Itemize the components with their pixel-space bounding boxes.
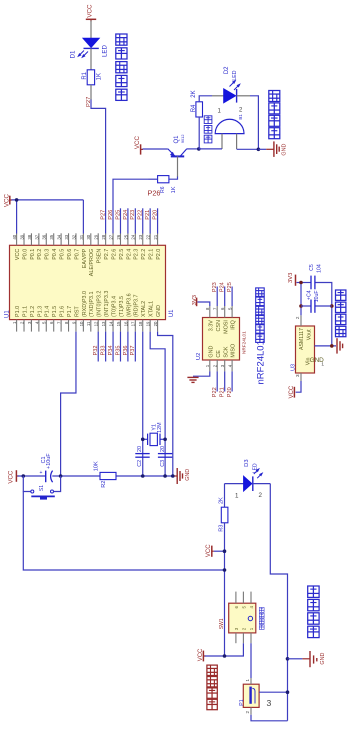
svg-text:VCC: VCC	[4, 193, 11, 207]
svg-text:P1.3: P1.3	[37, 306, 43, 317]
svg-text:P24: P24	[123, 210, 129, 220]
svg-text:3V3: 3V3	[192, 295, 198, 305]
svg-text:2K: 2K	[219, 497, 225, 504]
regulator U3 ASM1117	[295, 315, 324, 381]
svg-text:20: 20	[137, 446, 143, 452]
svg-text:P0.3: P0.3	[45, 249, 51, 260]
svg-text:P20: P20	[152, 210, 158, 220]
resistor R6 1K	[149, 176, 177, 194]
wire buzzer right	[237, 148, 259, 150]
svg-text:P27: P27	[101, 210, 107, 220]
svg-text:10: 10	[79, 321, 84, 326]
svg-text:D3: D3	[244, 459, 250, 466]
svg-text:35: 35	[49, 234, 54, 239]
svg-text:nRF24L01: nRF24L01	[256, 340, 267, 384]
power 3V3 (U2)	[192, 295, 210, 306]
svg-text:27: 27	[108, 234, 113, 239]
wire reset rail	[18, 475, 173, 477]
svg-text:P26: P26	[148, 189, 161, 198]
svg-text:P33: P33	[101, 346, 107, 356]
wires P23 P24 P25	[212, 282, 233, 306]
wire P1 pin3	[259, 692, 287, 708]
svg-text:U3: U3	[291, 364, 297, 371]
annotation power-input text	[207, 665, 217, 710]
svg-text:GND: GND	[320, 652, 326, 664]
svg-text:P21: P21	[220, 387, 226, 397]
svg-text:(T1)P3.5: (T1)P3.5	[119, 296, 125, 317]
svg-text:36: 36	[42, 234, 47, 239]
wire base to R6	[169, 177, 178, 180]
svg-text:17: 17	[131, 321, 136, 326]
svg-text:P21: P21	[145, 210, 151, 220]
svg-text:P0.7: P0.7	[74, 249, 80, 260]
svg-text:25: 25	[123, 234, 128, 239]
svg-text:14: 14	[108, 321, 113, 326]
capacitor C2 20	[135, 446, 149, 467]
net labels P32-P37 wires	[93, 332, 136, 362]
wire U3 GND	[315, 345, 337, 347]
svg-text:104: 104	[317, 264, 323, 273]
svg-text:13: 13	[101, 321, 106, 326]
svg-text:SW1: SW1	[219, 618, 225, 629]
svg-text:P1.4: P1.4	[45, 306, 51, 317]
wire P27 net	[91, 100, 106, 234]
svg-text:XTAL2: XTAL2	[141, 301, 147, 317]
svg-text:LED: LED	[232, 70, 238, 80]
svg-text:28: 28	[101, 234, 106, 239]
junction	[22, 474, 175, 478]
svg-text:P0.5: P0.5	[60, 249, 66, 260]
ground GND (alarm)	[258, 141, 287, 157]
svg-text:D2: D2	[224, 66, 230, 74]
wire SW1 pin1 to P1	[250, 643, 252, 678]
svg-text:P0.0: P0.0	[22, 249, 28, 260]
svg-text:10uF: 10uF	[314, 290, 320, 302]
svg-text:+10uF: +10uF	[46, 453, 52, 469]
annotation power-module text	[335, 290, 345, 337]
svg-text:(INT0)P3.2: (INT0)P3.2	[97, 291, 103, 317]
svg-text:40: 40	[12, 234, 17, 239]
svg-text:9012: 9012	[180, 135, 185, 144]
switch SW1 power	[219, 592, 256, 644]
svg-text:30: 30	[86, 234, 91, 239]
wire P1 pin2 loop	[251, 715, 288, 721]
label NRF24L01	[242, 331, 247, 354]
capacitor C5 104	[309, 264, 323, 289]
svg-text:LED: LED	[101, 44, 108, 57]
svg-text:P2.6: P2.6	[111, 249, 117, 260]
wire VCC rail down	[23, 492, 224, 571]
svg-text:XTAL1: XTAL1	[149, 301, 155, 317]
junction	[286, 657, 290, 661]
designator U3	[291, 364, 297, 371]
svg-text:ASM1117: ASM1117	[299, 328, 305, 350]
svg-text:2: 2	[295, 316, 300, 319]
junction	[257, 148, 261, 152]
svg-text:MISO: MISO	[231, 344, 237, 358]
svg-text:VCC: VCC	[198, 648, 204, 661]
svg-text:11: 11	[86, 321, 91, 326]
svg-text:P23: P23	[130, 210, 136, 220]
capacitor C1 +10uF	[40, 453, 53, 482]
svg-text:P1.6: P1.6	[60, 306, 66, 317]
wire R4 to collector	[198, 117, 200, 149]
op-amp U1 body (8051 MCU)	[10, 233, 166, 331]
svg-text:U2: U2	[196, 353, 202, 360]
module U2 NRF24L01	[203, 306, 240, 371]
svg-text:P23: P23	[212, 282, 218, 292]
svg-text:3: 3	[295, 374, 300, 377]
capacitor C3 20	[158, 446, 172, 467]
svg-text:ALE/PROG: ALE/PROG	[89, 249, 95, 277]
resistor R4 2K	[191, 90, 202, 117]
svg-text:MOSI: MOSI	[223, 320, 229, 334]
buzzer B1	[215, 108, 244, 150]
svg-text:29: 29	[94, 234, 99, 239]
svg-text:P0.4: P0.4	[52, 249, 58, 260]
svg-text:GND: GND	[156, 305, 162, 317]
svg-text:+: +	[40, 470, 43, 476]
svg-text:38: 38	[27, 234, 32, 239]
power VCC (D3 rail)	[206, 544, 224, 557]
svg-text:10K: 10K	[94, 461, 100, 471]
svg-text:20: 20	[153, 321, 158, 326]
svg-text:19: 19	[146, 321, 151, 326]
svg-text:P25: P25	[227, 282, 233, 292]
svg-text:R2: R2	[101, 481, 107, 488]
svg-text:34: 34	[57, 234, 62, 239]
svg-text:PSEN: PSEN	[97, 249, 103, 264]
wire GND pin20	[158, 332, 173, 476]
svg-text:P24: P24	[220, 282, 226, 292]
svg-text:18: 18	[138, 321, 143, 326]
svg-text:C5: C5	[309, 264, 315, 271]
svg-text:SCK: SCK	[223, 346, 229, 357]
svg-text:P1.7: P1.7	[67, 306, 73, 317]
ground GND (U2 pin1)	[187, 371, 209, 382]
svg-text:P2.0: P2.0	[156, 249, 162, 260]
svg-text:P2.1: P2.1	[149, 249, 155, 260]
svg-text:12: 12	[94, 321, 99, 326]
svg-text:32: 32	[71, 234, 76, 239]
svg-text:P2.3: P2.3	[134, 249, 140, 260]
svg-text:24: 24	[131, 234, 136, 239]
wire D3 cathode to GND	[270, 484, 287, 721]
junction	[330, 344, 334, 348]
svg-text:U1: U1	[4, 310, 10, 318]
svg-text:39: 39	[19, 234, 24, 239]
svg-text:R6: R6	[160, 186, 166, 193]
svg-text:1K: 1K	[171, 186, 177, 193]
svg-text:P2.5: P2.5	[119, 249, 125, 260]
svg-text:P22: P22	[138, 210, 144, 220]
svg-text:P34: P34	[108, 346, 114, 356]
svg-text:P37: P37	[130, 346, 136, 356]
svg-text:R4: R4	[191, 104, 197, 112]
switch S1 reset button	[23, 476, 60, 500]
svg-text:P22: P22	[212, 387, 218, 397]
wire buzzer left	[199, 148, 222, 150]
crystal Y1 12M	[143, 422, 165, 446]
svg-text:VCC: VCC	[15, 249, 21, 260]
svg-text:GND: GND	[281, 143, 287, 155]
wires P22 P21 P20	[212, 371, 233, 397]
ground GND (power)	[288, 651, 327, 667]
svg-text:P2.2: P2.2	[141, 249, 147, 260]
svg-text:20: 20	[160, 446, 166, 452]
svg-text:VCC: VCC	[206, 544, 212, 557]
svg-text:P1.5: P1.5	[52, 306, 58, 317]
svg-text:P1.1: P1.1	[22, 306, 28, 317]
svg-text:31: 31	[79, 234, 84, 239]
power VCC (Q1)	[134, 135, 143, 154]
svg-text:15: 15	[116, 321, 121, 326]
wire	[90, 48, 92, 69]
power VCC (signal LED)	[86, 4, 96, 22]
wire collector	[187, 148, 199, 150]
annotation nRF24L01 wireless module text	[256, 288, 267, 385]
power VCC (U1)	[4, 193, 13, 207]
annotation buzzer text	[204, 116, 212, 143]
resistor R1 1K	[82, 70, 103, 85]
svg-text:B1: B1	[238, 114, 243, 120]
svg-text:P2.4: P2.4	[126, 249, 132, 260]
svg-text:1: 1	[321, 362, 324, 368]
svg-text:GND: GND	[185, 469, 191, 481]
resistor R2 10K	[94, 461, 116, 488]
designator U1 left	[4, 310, 10, 318]
svg-text:26: 26	[116, 234, 121, 239]
capacitor C4 +10uF	[301, 290, 332, 313]
svg-text:(WR)P3.6: (WR)P3.6	[126, 293, 132, 317]
wire VCC to SW1 pin2	[205, 643, 244, 656]
svg-text:IRQ: IRQ	[231, 320, 237, 330]
wire R4 to D2	[199, 96, 212, 102]
LED D1	[70, 38, 109, 58]
svg-text:Vout: Vout	[307, 329, 313, 340]
svg-text:(INT1)P3.3: (INT1)P3.3	[104, 291, 110, 317]
svg-text:23: 23	[138, 234, 143, 239]
wire	[90, 21, 92, 39]
svg-text:(RD)P3.7: (RD)P3.7	[134, 295, 140, 317]
transistor Q1 9012 PNP	[168, 135, 187, 177]
svg-text:VCC: VCC	[87, 4, 94, 18]
svg-text:R3: R3	[219, 525, 225, 532]
svg-text:EA/VPP: EA/VPP	[82, 248, 88, 268]
svg-text:22: 22	[146, 234, 151, 239]
svg-text:P0.6: P0.6	[67, 249, 73, 260]
svg-text:P26: P26	[108, 210, 114, 220]
power VCC (U3)	[289, 381, 301, 398]
wire	[90, 85, 92, 100]
svg-text:+C4: +C4	[306, 290, 312, 300]
svg-text:P20: P20	[227, 387, 233, 397]
svg-text:1: 1	[235, 493, 239, 500]
svg-text:P1.0: P1.0	[15, 306, 21, 317]
junction	[15, 198, 19, 202]
svg-text:P1: P1	[239, 699, 245, 705]
svg-text:RST: RST	[74, 306, 80, 317]
svg-text:C2: C2	[137, 460, 143, 467]
svg-text:P35: P35	[115, 346, 121, 356]
power VCC (SW1)	[198, 648, 205, 661]
svg-text:U1: U1	[169, 309, 175, 317]
junction	[197, 147, 201, 151]
annotation power-circuit text	[308, 586, 319, 638]
annotation signal-indicator-lamp text	[116, 34, 127, 100]
wire R3 down	[224, 523, 226, 656]
svg-text:R1: R1	[82, 71, 88, 79]
junction	[286, 690, 290, 694]
LED D3	[225, 459, 271, 499]
svg-text:2K: 2K	[191, 90, 197, 97]
designator U1 right	[169, 309, 175, 317]
svg-text:P2.7: P2.7	[104, 249, 110, 260]
svg-text:S1: S1	[39, 485, 45, 491]
svg-text:3.3V: 3.3V	[208, 320, 214, 331]
junction	[223, 549, 227, 571]
svg-text:2: 2	[259, 492, 263, 499]
svg-text:CE: CE	[216, 350, 222, 358]
svg-text:3: 3	[267, 698, 272, 708]
svg-text:CSN: CSN	[216, 320, 222, 331]
net label P26	[148, 189, 161, 198]
svg-text:C3: C3	[160, 460, 166, 467]
junction	[223, 654, 227, 658]
wire XTAL1	[150, 332, 165, 476]
svg-text:VCC: VCC	[7, 470, 14, 484]
power VCC (reset)	[7, 470, 18, 484]
wire XTAL2	[142, 332, 144, 476]
svg-text:12M: 12M	[157, 422, 163, 433]
svg-text:GND: GND	[208, 346, 214, 358]
svg-text:33: 33	[64, 234, 69, 239]
ground GND (U3)	[337, 338, 343, 353]
svg-text:(TXD)P3.1: (TXD)P3.1	[89, 292, 95, 317]
svg-text:P25: P25	[115, 210, 121, 220]
wire D2 to GND branch	[250, 96, 258, 150]
power 3V3 rail	[288, 273, 332, 346]
svg-text:(T0)P3.4: (T0)P3.4	[111, 296, 117, 317]
resistor R3 2K	[219, 484, 228, 532]
svg-text:P0.1: P0.1	[30, 249, 36, 260]
svg-text:D1: D1	[70, 50, 77, 58]
svg-text:P36: P36	[123, 346, 129, 356]
wire RST to reset circuit	[61, 332, 76, 476]
LED D2	[212, 66, 250, 103]
svg-text:VCC: VCC	[134, 135, 141, 149]
net label P27	[86, 97, 92, 107]
annotation alarm-circuit text	[269, 90, 280, 138]
svg-text:P0.2: P0.2	[37, 249, 43, 260]
svg-text:21: 21	[153, 234, 158, 239]
svg-text:NRF24L01: NRF24L01	[242, 331, 247, 354]
wire P26 net	[113, 179, 149, 233]
svg-text:(RXD)P3.0: (RXD)P3.0	[82, 291, 88, 317]
svg-text:LED: LED	[252, 463, 258, 473]
net labels P27-P20 wires	[101, 208, 159, 233]
svg-text:16: 16	[123, 321, 128, 326]
svg-text:VCC: VCC	[289, 385, 295, 398]
connector P1 power jack	[239, 678, 259, 715]
junction	[141, 438, 167, 442]
svg-text:1K: 1K	[97, 73, 103, 80]
wire	[143, 148, 168, 150]
svg-text:P32: P32	[93, 346, 99, 356]
svg-text:P1.2: P1.2	[30, 306, 36, 317]
designator U2	[196, 353, 202, 360]
svg-text:37: 37	[34, 234, 39, 239]
junction	[299, 281, 333, 308]
wire VCC to pin40 and EA/VPP	[12, 200, 84, 234]
annotation power-switch text	[259, 608, 264, 630]
svg-text:3V3: 3V3	[288, 273, 294, 283]
ground GND (oscillator)	[173, 468, 191, 484]
